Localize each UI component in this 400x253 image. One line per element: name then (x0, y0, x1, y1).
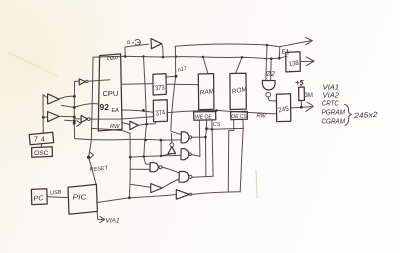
wire: RW buffer out (138, 122, 156, 126)
buffer top bypass input wire (125, 44, 149, 56)
decoder 138 box (286, 52, 301, 72)
wire: B1 in (130, 184, 150, 187)
wire: riser line B down to latch enable and gate area (171, 46, 181, 134)
svg-text:+5: +5 (295, 78, 304, 87)
wire: branch to gates column (91, 128, 130, 133)
wire: vertical bus to RW node (144, 56, 147, 124)
inverter B input stub (74, 118, 81, 120)
N3 bubble (159, 166, 162, 169)
faint paper crease (256, 170, 257, 199)
node dot under resistor (300, 106, 303, 109)
wire: inverter B out through CPU (90, 117, 153, 120)
node dot y140 left (144, 139, 147, 142)
wire: N3 out (162, 167, 179, 173)
wire: CS stub down to N4 out (212, 120, 213, 176)
buffer tri2 (48, 112, 60, 122)
wire: line B to arrow (267, 41, 312, 47)
node dot bus x279 (278, 57, 281, 60)
wire: data/RW line 374 to 245 (167, 110, 276, 114)
wire: tri1 out (60, 96, 75, 98)
svg-text:3M: 3M (305, 93, 313, 99)
wire: clock bus x74 (73, 81, 75, 123)
wire: to tri1 input (43, 95, 48, 98)
wire: RAM OE down long (206, 120, 207, 177)
wire: main top bus A (93, 56, 287, 58)
inverter B bubble (87, 118, 90, 121)
node dot RESET (87, 156, 90, 159)
wire: bus to CPU pin curve (74, 104, 98, 108)
buffer RW triangle (130, 121, 138, 130)
wire: ROM CS stub (242, 120, 244, 129)
node dot RW junction (145, 123, 148, 126)
latch 373 box (153, 74, 166, 95)
node dot LE (175, 75, 178, 78)
arrowhead reset (90, 152, 94, 158)
svg-text:RW: RW (257, 114, 267, 120)
node dot bus x271 (270, 57, 273, 60)
nand gate N4 (179, 172, 189, 183)
nand gate N3 (150, 163, 158, 172)
inverter B (81, 115, 87, 122)
svg-text:EA: EA (112, 108, 120, 114)
wire: N1 out (192, 136, 206, 138)
svg-text:CRTC: CRTC (322, 99, 339, 108)
svg-text:74: 74 (34, 137, 48, 144)
tick chevron at bus bottom (77, 121, 81, 127)
wire: CPU left vertical (89, 57, 94, 157)
box PIC (68, 184, 97, 214)
arrowhead 138 output (306, 57, 314, 66)
wire: x130 vertical (128, 133, 131, 198)
resistor bottom lead (300, 101, 302, 108)
wire: gate input 2 (270, 59, 273, 81)
wire: NAND3 lower input (130, 168, 150, 170)
wire: down x161 (160, 140, 162, 156)
resistor top lead (300, 85, 302, 88)
box PC (31, 189, 47, 205)
wire: 138 output arrow (300, 60, 314, 62)
wire: B2 out long (192, 192, 240, 195)
N2 bubble (189, 153, 192, 156)
latch 374 box (153, 100, 167, 122)
ROM box (230, 73, 246, 109)
svg-text:WE OE: WE OE (195, 114, 212, 120)
svg-text:CGRAM: CGRAM (322, 117, 346, 126)
nand gate phi2 pointing down (262, 81, 275, 90)
node dot bus at x143 (142, 55, 144, 57)
svg-text:cΦP: cΦP (107, 56, 118, 62)
ROM control strip OE CS (231, 111, 248, 119)
svg-text:VIA1: VIA1 (106, 218, 120, 225)
box OSC (32, 147, 53, 157)
wire: 74 to OSC stub (40, 144, 42, 148)
svg-text:373: 373 (155, 84, 165, 92)
left buffer column: vertical feed (42, 95, 44, 134)
node dot y140 (160, 139, 163, 142)
nand gate N1 (181, 132, 189, 143)
node dot bus at x163 (162, 56, 165, 59)
nand gate N2 (181, 149, 189, 160)
wire: CPU RW to buffer (122, 123, 130, 125)
N4 bubble (189, 175, 192, 178)
node dot x130 y157 (129, 156, 132, 159)
wire: E pin stub into 138 (286, 50, 289, 55)
wire: line y128 (207, 127, 244, 130)
svg-text:PIC: PIC (73, 193, 88, 202)
buffer top output wire (162, 44, 164, 57)
node dot bus at x125 (124, 55, 127, 58)
node dot lineB x267 (266, 44, 269, 47)
svg-text:92: 92 (100, 102, 110, 112)
node dot OE y137 (204, 136, 207, 139)
node dot y156 mid (160, 155, 163, 158)
wire: RAM WE down (198, 120, 201, 156)
RAM control strip WE OE (194, 112, 216, 121)
wire: RAM top stub (203, 57, 208, 74)
wire: PIC bottom VIA1 (97, 212, 103, 220)
node dot PIC wire (128, 196, 131, 199)
wire: PC to PIC (47, 196, 68, 199)
wire: 245 output to bus arrow (291, 107, 312, 108)
buffer tri1 (48, 94, 60, 104)
wire: latch LE stub (166, 75, 176, 78)
wire: ROM OE down-around (228, 120, 234, 193)
faint yellow streak (8, 53, 58, 77)
wire: 373 to RAM (166, 83, 198, 85)
inverter small (79, 79, 85, 85)
arrowhead top right (305, 37, 312, 44)
wire: CPU to 374 (122, 110, 153, 112)
wire: gate output to 245 (268, 97, 276, 101)
buffer B1 (151, 184, 163, 193)
wire: NAND3 upper input (144, 157, 150, 165)
node dot left x43 (42, 116, 45, 119)
wire: inverter out to NAND1 line (170, 133, 172, 143)
svg-text:PGRAM: PGRAM (322, 108, 346, 117)
node dot bus at x176 (175, 56, 177, 58)
resistor R pullup (299, 87, 305, 101)
svg-text:245x2: 245x2 (353, 110, 379, 120)
wire: inverter input stub (161, 154, 170, 156)
wire: N2 out (191, 155, 200, 157)
wire: inverter out to CPU (88, 80, 110, 82)
node dot bus at x242 (241, 56, 243, 58)
wire: tri2 out (59, 115, 74, 117)
B2 bubble (190, 193, 192, 195)
node dot y156 left (143, 155, 146, 158)
node dot OE y128 (205, 127, 208, 130)
wire: tri2 input (43, 116, 47, 119)
wire: E stub from bus A (278, 47, 281, 58)
wire: tri2 out second stroke (65, 119, 75, 122)
wire: gate input 1 (266, 45, 267, 81)
wire: gating line y156 (130, 155, 181, 157)
node dot on CPU-374 wire (142, 109, 145, 112)
wire: to NAND1 lower input (161, 139, 181, 141)
wire: down x243 to B2 wire (240, 128, 243, 191)
RAM box (198, 74, 214, 110)
inverter small bubble (86, 80, 88, 82)
wire: bus top to inverter (75, 80, 80, 82)
inverter up triangle (168, 147, 176, 154)
wire: reset to PIC (89, 157, 97, 184)
svg-text:CPU: CPU (103, 89, 119, 98)
box 74 (29, 132, 54, 145)
wire: B1 out to N4 (162, 179, 179, 188)
node dots on clock bus (73, 95, 76, 98)
wire: tri1 out second stroke (62, 105, 75, 107)
arrowhead VIA1 (100, 217, 105, 223)
brace (345, 105, 352, 126)
arrowhead data bus (306, 102, 313, 111)
transceiver 245 box (276, 94, 290, 122)
svg-text:374: 374 (155, 109, 165, 117)
phi2 gate bubble (266, 92, 271, 97)
buffer B2 (176, 190, 189, 200)
svg-text:138: 138 (288, 60, 299, 68)
wire: ROM top stub (236, 57, 243, 73)
node dot y129 (211, 128, 214, 131)
svg-text:USB: USB (50, 189, 62, 196)
node dot on data line (215, 109, 218, 112)
N1 bubble (189, 136, 192, 139)
wire: CPU to 373 (122, 83, 153, 86)
buffer triangle top (151, 39, 162, 49)
svg-text:CS: CS (213, 122, 221, 128)
svg-text:OE CS: OE CS (231, 114, 247, 120)
wire: RW down to gate line (144, 124, 147, 156)
wire: long low bus from left (74, 123, 161, 140)
node dot bus at x203 (202, 56, 204, 58)
svg-text:PC: PC (33, 195, 44, 203)
wire: N4 out (192, 176, 213, 177)
inverter up bubble (170, 143, 174, 147)
svg-text:OSC: OSC (34, 150, 49, 157)
CPU box U1 (98, 54, 122, 131)
wire: PIC right to B2 (97, 195, 177, 203)
wire: upper clock line B (175, 44, 267, 46)
